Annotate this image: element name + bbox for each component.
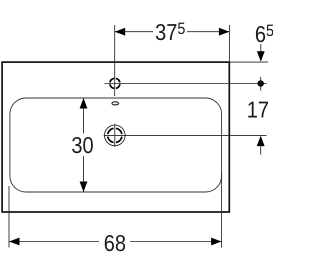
label 30: [71, 132, 93, 158]
reference dot on tap line: [258, 80, 264, 86]
dimension 30 up arrow: [80, 98, 88, 109]
svg-text:17: 17: [247, 96, 269, 122]
svg-text:68: 68: [104, 230, 126, 256]
tap hole bold circle (4 arcs): [110, 78, 120, 88]
label 6.5: [255, 21, 274, 47]
dimension 37.5 right arrow: [219, 28, 230, 36]
drain cross horizontal line continuing to right reference: [104, 134, 267, 136]
basin bowl inner outline: [10, 98, 222, 192]
dimension 17 arrow stem: [260, 144, 262, 155]
dimension 6.5 down arrow: [257, 51, 265, 62]
dimension 30 down arrow: [80, 182, 88, 193]
reference dot vertical tick: [260, 77, 262, 91]
label 17: [247, 96, 269, 122]
dimension 17 up arrow: [257, 136, 265, 147]
drain cross vertical line: [114, 124, 116, 147]
dimension 30 line: [83, 98, 85, 134]
dimension 68: extension line left: [8, 186, 10, 248]
dimension 37.5: extension line right: [228, 25, 230, 63]
dimension 68 line: [9, 241, 99, 243]
drain bold inner circle (4 arcs): [108, 128, 122, 142]
tap hole cross horizontal line to right reference: [105, 83, 267, 85]
tap hole centerline (vertical extension line): [114, 25, 116, 96]
dimension 68 right arrow: [211, 238, 222, 246]
top edge reference line to right: [229, 61, 268, 63]
label 68: [104, 230, 126, 256]
overflow slot: [112, 102, 119, 105]
dimension 6.5 arrow stem: [260, 44, 262, 53]
washbasin outer ceramic outline: [2, 62, 229, 212]
dimension 68: extension line right: [221, 171, 223, 248]
label 37.5: [155, 19, 185, 45]
dimension 37.5 left arrow: [115, 28, 126, 36]
drain outer thin circle: [105, 125, 126, 146]
dimension 68 left arrow: [9, 238, 20, 246]
dimension 37.5 line: [115, 31, 153, 33]
svg-text:30: 30: [71, 132, 93, 158]
